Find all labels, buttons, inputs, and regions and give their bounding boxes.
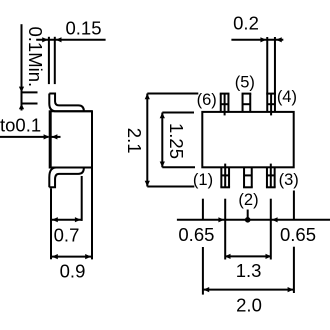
wire: dimension line 0.15 [36,39,105,41]
svg-text:0.65: 0.65 [280,224,316,245]
wire: dimension line 2.0 [203,289,294,291]
svg-text:(3): (3) [279,171,299,189]
arrow: 2.1 top (up) [145,94,150,100]
lead bottom tip and inner contour [49,168,84,188]
arrow: 0.7 left [52,217,58,222]
arrow: 2.1 bottom (down) [145,181,150,187]
svg-text:0.2: 0.2 [233,12,259,33]
pin 2 [243,167,253,187]
pin 1 [220,164,230,188]
node: pin2 leader dot [245,217,251,223]
arrow: 1.25 bottom (down) [160,162,165,168]
arrow: 2.0 right [288,287,294,292]
arrow: 0.65 right at pin3 center [272,217,278,222]
wire: left outer extension upper segment [202,199,204,220]
arrow: 0.7 right [75,217,81,222]
svg-text:0.9: 0.9 [60,260,86,281]
arrow: 0.65 left at pin1 center [218,217,224,222]
lead bottom outer contour [49,168,92,188]
wire: right outer extension upper segment [293,191,295,220]
wire: dimension line 0.7 [51,219,82,221]
wire: to0.1 dimension line left segment [0,136,49,138]
svg-text:(5): (5) [235,73,255,91]
wire: to0.1 dimension line right segment [52,136,61,138]
svg-text:(6): (6) [197,91,217,109]
wire: pin2 leader line [247,210,249,220]
wire: 2.1 bottom extension line [147,186,194,188]
wire: right outer extension lower segment [293,247,295,293]
arrow: 1.3 right [266,254,272,259]
arrow: 1.3 left [225,254,231,259]
wire: 0.7 right extension line [81,176,83,221]
wire: 2.1 dimension line vertical [146,94,148,187]
wire: dimension line 1.3 [225,255,271,257]
svg-text:(4): (4) [277,88,297,106]
wire: 0.7/0.9 left extension line [50,188,52,259]
arrow: 0.1Min upper (down) [19,87,24,93]
svg-text:to0.1: to0.1 [0,115,41,136]
wire: 0.1Min tick upper [21,91,38,93]
wire: row A dimension line (0.65 / 0.65) [177,219,330,221]
svg-text:1.3: 1.3 [236,260,262,281]
wire: 0.15 extension line left [48,37,50,84]
wire: 1.25 top extension line [162,112,194,114]
svg-text:2.0: 2.0 [236,294,262,315]
wire: pin1 center extension line [224,199,226,260]
svg-text:0.7: 0.7 [54,224,80,245]
lead top tip and inner contour [49,94,84,112]
svg-text:1.25: 1.25 [166,123,187,159]
wire: 0.2 extension line left (pin4 left edge) [266,37,268,94]
svg-text:(1): (1) [193,171,213,189]
wire: 0.9 right extension line (body edge continuation) [91,168,93,260]
arrow: 0.15 left [42,37,48,42]
arrow: 0.9 left [52,254,58,259]
wire: 2.1 top extension line [147,93,198,95]
arrow: 1.25 top (up) [160,113,165,119]
arrow: 0.1Min lower (up) [19,104,24,110]
svg-text:(2): (2) [238,191,258,209]
svg-text:2.1: 2.1 [124,128,145,154]
arrow: 0.9 right [85,254,91,259]
arrow: 2.0 left [203,287,209,292]
pin 4 [266,94,276,116]
package body side view left edge with seating plane line [49,110,52,168]
svg-text:0.65: 0.65 [178,224,214,245]
wire: pin3 center extension line [270,199,272,260]
wire: dimension line 0.2 [231,39,283,41]
arrow: 0.15 right [56,37,62,42]
wire: 1.25 bottom extension line [162,166,195,168]
wire: left outer extension lower segment [202,247,204,295]
svg-text:0.1Min.: 0.1Min. [25,27,46,88]
wire: 0.1Min tick lower [21,103,38,105]
arrow: 0.2 left [260,37,266,42]
lead top (side view gull-wing) outer contour [49,94,92,112]
package body top view [202,112,293,167]
wire: dimension line 0.9 [51,256,92,258]
wire: 0.1Min vertical dimension line [21,24,23,110]
pin 6 [220,94,230,116]
package body side view (top, right, bottom edges) [51,111,93,167]
wire: 0.15 extension line right [54,37,56,84]
pin 5 [242,94,252,112]
svg-text:0.15: 0.15 [65,18,101,39]
pin 3 [266,164,276,188]
wire: 0.2 extension line right (pin4 right edge) [274,37,276,94]
arrow: 0.2 right [276,37,282,42]
arrow: to0.1 left [44,134,50,139]
arrow: to0.1 right [52,134,58,139]
wire: 1.25 dimension line vertical [161,113,163,168]
